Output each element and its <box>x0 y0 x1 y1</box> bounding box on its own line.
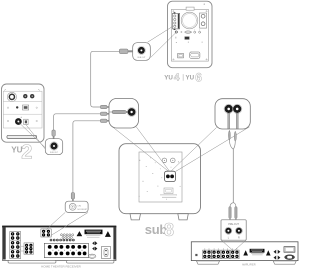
callout box: plug into sub input <box>109 99 139 129</box>
plug on cable 3 (into sub input box) <box>100 119 107 122</box>
amp foot right <box>273 261 296 264</box>
plug down-left into pre-out <box>229 207 231 219</box>
sub out 2x2 block (callout target) <box>41 229 51 237</box>
black caution label <box>250 249 265 253</box>
sub foot right <box>178 214 189 220</box>
wire: single run <box>232 149 234 203</box>
block connector lines <box>21 245 24 247</box>
input jacks <box>23 94 27 98</box>
left terminal block <box>173 13 180 29</box>
label SUB8 <box>145 220 174 240</box>
callout line <box>45 212 65 230</box>
svg-text:8: 8 <box>164 220 174 240</box>
plug on cable 1 (into sub input box) <box>100 105 107 108</box>
label YU2 <box>11 142 32 164</box>
s-video connector 1 <box>274 250 281 254</box>
receiver foot left <box>8 261 56 264</box>
knob left <box>162 158 167 163</box>
warning triangle 2 <box>105 231 111 237</box>
plug on cable 2 (into YU2 callout) <box>52 130 55 136</box>
svg-text:2: 2 <box>21 142 32 164</box>
usb/aux rect <box>185 37 189 40</box>
speaker YU2 back panel outer <box>2 84 45 142</box>
label YU4 | YU6 <box>164 70 202 84</box>
svg-text:6: 6 <box>195 70 202 84</box>
sub out jack <box>15 118 22 125</box>
sub spec text lines <box>160 194 176 196</box>
callout line <box>175 127 250 172</box>
bottom slot <box>7 135 37 138</box>
black caution label <box>85 230 103 235</box>
plug body right below box <box>234 131 236 142</box>
callout line <box>221 240 233 251</box>
rca plug inside <box>110 111 114 113</box>
jack circle <box>127 108 136 117</box>
rca group 2 <box>212 249 221 259</box>
plug on cable 3 (into receiver hookup callout) <box>71 193 74 199</box>
s-video connector 2 <box>92 247 97 251</box>
callout line <box>234 240 246 251</box>
svg-text:AMPLIFIER: AMPLIFIER <box>242 263 256 267</box>
callout line <box>171 127 217 171</box>
sub input jack box <box>165 171 176 181</box>
svg-text:HOOKUP: HOOKUP <box>78 209 88 211</box>
corner screws <box>173 11 174 12</box>
sub label plate <box>164 188 173 194</box>
callout line <box>18 122 45 148</box>
speaker binding post block <box>44 243 88 257</box>
callout box: receiver sub out <box>65 201 88 212</box>
wire: cable from YU2 sub out <box>54 114 101 130</box>
callout line <box>136 127 169 172</box>
knob right <box>171 158 176 163</box>
amp foot left <box>197 261 220 264</box>
callout line <box>151 32 177 57</box>
panel screws / speckles <box>139 158 181 200</box>
svg-text:R: R <box>238 237 240 240</box>
rca group 3 <box>221 249 230 259</box>
svg-text:YU: YU <box>186 75 195 82</box>
plug body left below box <box>228 130 230 140</box>
svg-text:4: 4 <box>174 73 180 84</box>
callout line <box>26 125 50 155</box>
sub inner panel <box>139 152 182 202</box>
power inlet box <box>102 247 111 259</box>
callout box: YU2 SUB OUT <box>45 139 62 155</box>
right terminal block <box>200 13 207 28</box>
callout line <box>148 27 173 43</box>
svg-text:YU: YU <box>164 75 173 82</box>
power port <box>24 119 28 124</box>
bass port rect <box>186 7 194 10</box>
dark top edge <box>2 226 116 228</box>
row of small jacks <box>50 239 74 241</box>
fuse box <box>284 247 295 253</box>
svg-text:SUB OUT: SUB OUT <box>137 57 146 59</box>
wire: cable from receiver sub out <box>73 121 101 193</box>
subwoofer cabinet <box>119 144 201 214</box>
speaker YU4/YU6 back panel outer <box>168 1 213 68</box>
warning triangle 1 <box>77 231 82 236</box>
plug on cable 2 (into sub input box) <box>100 112 107 115</box>
callout box: speaker SUB OUT <box>133 43 151 61</box>
callout line <box>112 126 169 171</box>
callout box: amplifier pre-out <box>221 220 246 240</box>
left dark side bar <box>3 227 6 260</box>
rca group 1 <box>203 249 212 259</box>
plug on cable 1 (into YU4 callout) <box>119 49 128 54</box>
warning triangle 1 <box>243 250 248 255</box>
inner panel <box>3 91 42 128</box>
wire: y-merge <box>229 141 235 150</box>
small 2x3 rca block <box>24 243 34 254</box>
small square <box>195 254 197 256</box>
wire: cable from YU4 sub out <box>91 51 120 107</box>
mid row <box>7 107 8 108</box>
left jack <box>224 104 233 113</box>
big driver circle <box>181 12 198 29</box>
amplifier chassis <box>191 242 298 261</box>
vga oval <box>88 254 96 258</box>
sub foot left <box>130 214 141 220</box>
callout box: stereo plugs into sub inputs <box>215 99 250 129</box>
s-video connector 2 <box>274 256 281 260</box>
inner panel corner ticks <box>4 89 6 91</box>
callout line <box>51 212 88 235</box>
control row under driver <box>175 31 177 33</box>
receiver foot right <box>67 261 115 264</box>
receiver chassis <box>3 226 117 260</box>
svg-text:SUB OUT: SUB OUT <box>50 152 59 154</box>
s-video connector 1 <box>92 241 97 245</box>
right dark side bar <box>113 227 116 260</box>
plug down-right into pre-out <box>235 207 237 219</box>
small jacks cluster top middle <box>61 234 74 239</box>
rca group 4 (pre-out target) <box>231 249 240 259</box>
ac outlet oval <box>285 255 295 260</box>
rca input block <box>10 232 21 259</box>
right jack <box>233 104 242 113</box>
plug shafts below jacks <box>228 113 230 129</box>
svg-text:PRE-OUT: PRE-OUT <box>228 223 239 226</box>
power switch rect <box>178 53 184 58</box>
warning triangle 2 <box>266 250 271 255</box>
wire: y-split <box>230 203 236 207</box>
svg-text:HOME THEATER RECEIVER: HOME THEATER RECEIVER <box>41 264 82 268</box>
volume knob <box>7 92 16 101</box>
svg-text:ON: ON <box>78 206 82 208</box>
speaker inner panel <box>171 9 208 61</box>
AC inlet <box>190 52 200 58</box>
